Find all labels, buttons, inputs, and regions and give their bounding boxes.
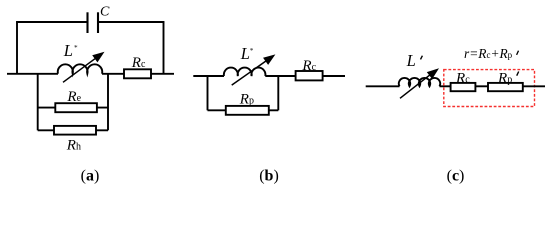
svg-text:(b): (b): [259, 168, 279, 185]
svg-text:R: R: [301, 58, 311, 74]
resistor Rp fig(b): [226, 106, 269, 115]
resistor Re fig(a): [55, 103, 97, 112]
svg-text:h: h: [76, 142, 81, 153]
svg-text:p: p: [249, 96, 254, 107]
svg-text:L: L: [406, 51, 416, 70]
wire fig(b) right lead: [323, 75, 345, 77]
capacitor C plates: [88, 12, 99, 33]
inductor L* fig(b): [224, 68, 266, 76]
svg-text:e: e: [77, 93, 82, 104]
wire fig(a) main horizontal right of inductor: [102, 73, 174, 75]
wire fig(b) left vertical: [207, 76, 209, 110]
svg-text:c: c: [141, 59, 146, 70]
wire fig(a) top branch horizontal left segment: [16, 21, 87, 23]
wire fig(b) right vertical: [277, 76, 279, 110]
wire fig(a) bottom left vertical: [37, 74, 39, 131]
svg-text:*: *: [74, 44, 78, 52]
svg-text:L: L: [63, 41, 73, 60]
wire fig(b) bottom branch: [208, 109, 279, 111]
wire fig(c) middle: [440, 85, 451, 87]
wire fig(b) middle horizontal: [265, 75, 295, 77]
resistor Rp' fig(c): [488, 83, 523, 91]
wire fig(b) left lead: [193, 75, 224, 77]
arrow through inductor fig(a): [63, 52, 105, 83]
inductor L* fig(a): [58, 64, 102, 74]
svg-text:(a): (a): [81, 168, 100, 185]
svg-text:R: R: [66, 89, 76, 105]
wire fig(a) Re branch: [38, 107, 108, 109]
svg-text:(c): (c): [447, 168, 465, 185]
wire fig(a) Rh branch: [38, 129, 108, 131]
wire fig(c) between Rc and Rp': [475, 85, 488, 87]
resistor Rc fig(b): [296, 71, 323, 80]
resistor Rc fig(a): [124, 69, 151, 78]
wire fig(c) left lead: [366, 85, 400, 87]
wire fig(a) top branch right vertical: [163, 21, 165, 74]
wire fig(a) top branch left vertical: [16, 21, 18, 74]
svg-text:R: R: [66, 138, 76, 154]
svg-text:R: R: [131, 55, 141, 71]
svg-text:C: C: [100, 5, 110, 20]
svg-text:R: R: [497, 70, 507, 86]
svg-text:c: c: [465, 74, 470, 85]
arrow through inductor fig(c): [400, 68, 439, 98]
wire fig(a) main horizontal: [7, 73, 58, 75]
arrow through inductor fig(b): [232, 54, 276, 85]
svg-text:L: L: [240, 44, 250, 63]
svg-text:r=Rc+Rp: r=Rc+Rp: [464, 46, 513, 61]
wire fig(c) right lead: [523, 85, 545, 87]
wire fig(a) bottom right vertical: [107, 74, 109, 131]
svg-text:*: *: [250, 47, 254, 55]
resistor Rh fig(a): [54, 126, 96, 135]
inductor L' fig(c): [399, 78, 440, 86]
svg-text:p: p: [507, 74, 512, 85]
dashed equivalent-resistance box: [444, 70, 535, 107]
svg-text:R: R: [239, 92, 249, 108]
wire fig(a) top branch horizontal right segment: [98, 21, 164, 23]
svg-text:c: c: [312, 62, 317, 73]
resistor Rc fig(c): [451, 83, 476, 91]
svg-text:R: R: [455, 70, 465, 86]
